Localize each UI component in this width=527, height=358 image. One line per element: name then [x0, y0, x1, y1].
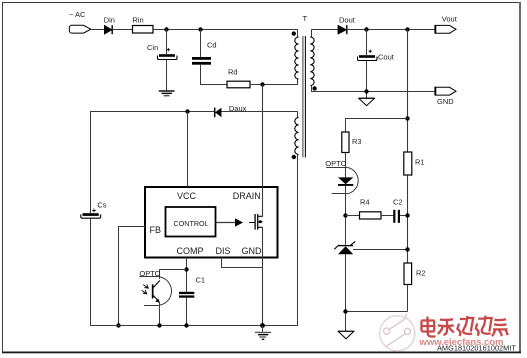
svg-text:COMP: COMP: [177, 246, 204, 256]
node junction C1 rail: [184, 323, 188, 327]
node junction zener gnd: [343, 309, 347, 313]
capacitor C2: [393, 198, 403, 223]
CONTROL block: [166, 207, 216, 237]
svg-text:GND: GND: [242, 246, 263, 256]
wire output divider vertical: [407, 30, 409, 264]
wire drain line: [262, 85, 264, 217]
wire zener to R2 junction: [353, 249, 408, 251]
diode Din: [104, 16, 115, 35]
capacitor Cin: [147, 43, 177, 60]
transistor Q1 MOSFET: [216, 214, 263, 230]
resistor R1: [404, 152, 425, 175]
node secondary phase dot: [312, 86, 316, 90]
wire AC to Din: [91, 29, 105, 31]
wire COMP pin drop: [186, 258, 188, 292]
svg-text:Cs: Cs: [97, 201, 106, 210]
wire Rin to transformer primary: [153, 29, 298, 31]
node AC input connector: [69, 10, 91, 33]
node primary phase dot: [292, 31, 296, 35]
wire FB: [119, 227, 146, 326]
node junction divider top: [405, 27, 409, 31]
ground earth below Cin: [159, 91, 175, 96]
svg-text:Din: Din: [104, 16, 115, 25]
wire Cin to ground: [166, 60, 168, 91]
svg-text:Dout: Dout: [339, 16, 356, 25]
wire opto emitter to rail: [159, 302, 161, 326]
node junction FB rail: [116, 323, 120, 327]
svg-text:OPTO: OPTO: [325, 159, 346, 168]
wire R2 bottom: [407, 285, 409, 312]
svg-text:R4: R4: [360, 198, 370, 207]
node junction zener divider: [405, 247, 409, 251]
svg-text:DIS: DIS: [216, 246, 231, 256]
wire secondary gnd rail: [311, 91, 435, 93]
wire Cd branch: [200, 30, 202, 58]
node junction COMP: [184, 267, 188, 271]
node junction C2 divider: [405, 213, 409, 217]
svg-text:R1: R1: [415, 158, 425, 167]
capacitor Cout: [358, 50, 395, 62]
svg-text:Cin: Cin: [147, 43, 158, 52]
opto-coupler U2 transistor: [139, 269, 171, 306]
wire primary gnd rail: [91, 162, 298, 326]
wire R4 branch: [346, 215, 360, 217]
node junction VCC: [185, 109, 189, 113]
svg-text:~ AC: ~ AC: [69, 10, 86, 19]
capacitor Cd: [192, 41, 217, 65]
node junction R4: [343, 213, 347, 217]
svg-text:C2: C2: [393, 198, 403, 207]
transformer primary winding: [295, 30, 299, 80]
wire DIS pin drop: [222, 258, 263, 268]
wire R3 to opto LED: [345, 153, 347, 178]
node junction GND rail: [260, 323, 265, 328]
capacitor C1: [179, 276, 205, 298]
opto-coupler U2 LED: [325, 159, 358, 194]
wire C2 to divider: [400, 215, 408, 217]
wire Cin branch: [166, 30, 168, 55]
svg-text:DRAIN: DRAIN: [233, 191, 261, 201]
svg-text:VCC: VCC: [177, 191, 197, 201]
svg-text:R2: R2: [416, 269, 426, 278]
wire R3 tap: [346, 119, 408, 133]
transformer secondary winding: [310, 30, 314, 92]
wire Cout to gnd rail: [366, 61, 368, 99]
node aux phase dot: [292, 155, 296, 159]
node Vout connector: [434, 15, 457, 34]
wire zener bottom: [345, 254, 347, 331]
resistor Rd: [227, 68, 250, 88]
wire Daux to aux winding: [221, 111, 298, 113]
svg-text:CONTROL: CONTROL: [174, 219, 209, 228]
op-amp U1 IC body: [145, 187, 278, 258]
resistor R2: [404, 263, 426, 285]
svg-text:C1: C1: [196, 276, 206, 285]
svg-text:Rd: Rd: [228, 68, 238, 77]
wire C1 to rail: [186, 298, 188, 326]
node junction Cout gnd: [364, 89, 368, 93]
transformer T core: [303, 14, 308, 158]
resistor Rin: [132, 16, 153, 34]
wire COMP to opto collector: [160, 270, 187, 280]
wire secondary top to Dout: [311, 29, 338, 31]
svg-text:Cd: Cd: [207, 41, 217, 50]
svg-text:Rin: Rin: [132, 16, 143, 25]
wire Cd to Rd: [201, 65, 228, 85]
watermark logo circle: [380, 314, 415, 351]
resistor R4: [360, 198, 382, 220]
node junction Cd: [198, 27, 202, 31]
diode Dout: [338, 16, 356, 35]
capacitor Cs: [81, 201, 107, 219]
node junction Cin: [164, 27, 168, 31]
wire Cout branch: [366, 30, 368, 56]
svg-text:Cout: Cout: [378, 53, 395, 62]
svg-text:GND: GND: [437, 97, 454, 106]
svg-text:FB: FB: [150, 225, 162, 235]
ground secondary triangle: [359, 98, 375, 105]
watermark text elecfans: [422, 316, 508, 337]
ground earth IC: [255, 326, 271, 340]
node junction opto rail: [157, 323, 161, 327]
resistor R3: [342, 132, 362, 153]
diode Daux: [215, 104, 247, 117]
node junction drain: [260, 82, 264, 86]
diode zener D1: [334, 241, 355, 254]
svg-text:R3: R3: [352, 137, 362, 146]
svg-text:T: T: [303, 14, 308, 23]
svg-text:Vout: Vout: [442, 15, 458, 24]
wire VCC rail: [91, 112, 215, 214]
wire GND pin drop: [262, 227, 264, 326]
wire R4 to C2: [381, 215, 393, 217]
ground secondary bottom triangle: [338, 331, 354, 338]
node junction Cout: [364, 27, 368, 31]
wire opto LED to R4 node: [345, 186, 347, 245]
svg-text:AMG181020161002MIT: AMG181020161002MIT: [437, 344, 516, 353]
wire Cs to rail: [90, 218, 92, 326]
node GND connector: [434, 87, 456, 106]
wire Dout to Vout: [347, 29, 435, 31]
wire VCC pin drop: [187, 112, 189, 188]
wire zener to R2 bottom rail: [346, 311, 408, 313]
transformer auxiliary winding: [295, 112, 299, 163]
wire Din to Rin: [112, 29, 132, 31]
node junction R3 tap: [405, 116, 409, 120]
wire Rd to primary bottom: [250, 79, 298, 85]
